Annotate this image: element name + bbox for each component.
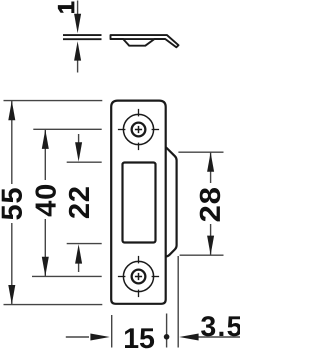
dimension 3.5: line with arrow <box>198 336 240 338</box>
dimension 15: label <box>125 328 154 348</box>
extension lines right (28 dim) <box>178 152 223 255</box>
dimension 28: line <box>210 153 212 255</box>
extension lines bottom <box>112 256 179 348</box>
dimension 55: arrowheads <box>8 101 15 305</box>
dimension 40: line <box>44 130 46 277</box>
side view: plate edge lines (thickness) <box>63 35 102 39</box>
dimension 55: line <box>11 101 13 304</box>
extension lines left <box>4 101 103 305</box>
top screw hole <box>118 109 159 150</box>
dimension 1: dimension line <box>77 1 79 73</box>
dimension 55: label <box>2 188 22 219</box>
front view: slot rectangle <box>123 163 156 243</box>
dimension 28: arrowheads <box>207 152 214 255</box>
profile view: bar with slot dip and bent tab <box>111 35 179 47</box>
front view: plate outline with right-side tab <box>111 101 176 304</box>
dimension 3.5: label <box>201 316 242 336</box>
dimension 1: label <box>58 2 74 13</box>
bottom screw hole <box>118 256 159 297</box>
dimension 1: arrowheads <box>74 14 81 61</box>
dimension 40: arrowheads <box>42 130 49 277</box>
front view: tab bump outline <box>166 147 177 256</box>
dimension 28: label <box>200 188 221 221</box>
dimension 40: label <box>35 185 56 217</box>
dimension 22: outside arrows <box>78 134 80 272</box>
dimension 15: line with outside arrow and dot <box>66 336 89 338</box>
dimension 22: label <box>69 187 89 218</box>
